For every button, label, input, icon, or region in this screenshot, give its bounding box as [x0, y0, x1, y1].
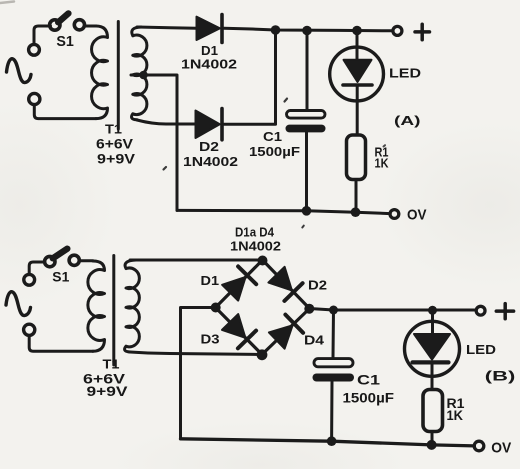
svg-text:LED: LED	[466, 342, 496, 357]
output terminal 0V (B)	[474, 441, 484, 451]
switch S1 (circuit B)	[45, 249, 80, 267]
AC source squiggle (A)	[7, 59, 32, 83]
svg-text:D4: D4	[304, 333, 325, 348]
AC input terminal upper (A)	[29, 44, 40, 55]
wire: secondary top to diode D1 (A)	[137, 27, 197, 28]
wire: LED cathode to R1 (B)	[431, 362, 434, 389]
LED (A)	[330, 47, 384, 101]
diode D2 (bridge, pointing to right node)	[268, 267, 302, 301]
wire: D2 cathode to D1 output junction (A)	[224, 123, 276, 126]
bridge arm top-node to right-node	[263, 260, 310, 309]
svg-text:(A): (A)	[394, 113, 421, 128]
label + (B)	[496, 304, 513, 319]
svg-text:D2: D2	[199, 139, 219, 154]
diode D2 (A)	[196, 109, 223, 140]
transformer T1 core (A)	[117, 22, 120, 130]
wire: secondary top to bridge top node (B)	[130, 259, 263, 262]
transformer T1 secondary winding (B)	[125, 260, 140, 352]
capacitor C1 (A)	[286, 111, 326, 133]
transformer center tap junction (A)	[139, 71, 148, 80]
svg-text:D3: D3	[201, 332, 220, 347]
stray ink speck right margin (A)	[384, 145, 386, 146]
LED (B)	[405, 321, 460, 376]
junction node C1 bottom (B)	[327, 436, 337, 446]
faint smudge top-left corner	[0, 2, 14, 4]
resistor R1 (B)	[423, 390, 443, 432]
0V rail (B)	[181, 439, 475, 446]
svg-text:T1: T1	[103, 357, 120, 372]
stray ink speck above bridge label	[302, 226, 304, 228]
svg-text:D1: D1	[201, 273, 220, 288]
svg-text:9+9V: 9+9V	[97, 152, 135, 167]
junction node bridge top	[258, 256, 268, 266]
svg-text:C1: C1	[263, 129, 282, 144]
wire: LED cathode to R1 (A)	[356, 85, 359, 135]
wire: R1 bottom to 0V rail (B)	[431, 432, 434, 445]
junction node C1 bottom (A)	[302, 206, 312, 216]
wire: C1 branch top (B)	[332, 310, 336, 357]
junction node D1 output (A)	[271, 25, 281, 35]
diode D4 (bridge, pointing to right node)	[269, 315, 303, 349]
svg-text:1N4002: 1N4002	[230, 239, 281, 254]
wire: bridge right node to + terminal (B)	[310, 309, 476, 311]
bridge arm bottom-node to right-node	[262, 309, 310, 355]
svg-text:1K: 1K	[447, 408, 464, 423]
diode D3 (bridge, pointing to bottom node)	[222, 314, 256, 348]
svg-text:1N4002: 1N4002	[183, 154, 238, 169]
AC input terminal upper (B)	[24, 274, 35, 285]
junction node R1 bottom (B)	[427, 440, 437, 450]
transformer T1 primary winding (A)	[92, 26, 108, 119]
resistor R1 (A)	[347, 135, 366, 180]
switch S1 (circuit A)	[50, 13, 85, 30]
svg-text:1K: 1K	[375, 155, 390, 170]
label + (A)	[415, 24, 430, 40]
capacitor C1 (B)	[313, 359, 355, 382]
stray ink speck near T1 (A)	[164, 167, 167, 170]
svg-text:S1: S1	[56, 34, 74, 50]
wire: center tap to 0V rail (A)	[131, 75, 177, 210]
AC input terminal lower (A)	[29, 93, 40, 104]
output terminal + (B)	[476, 306, 485, 315]
svg-text:1N4002: 1N4002	[181, 57, 237, 72]
svg-text:(B): (B)	[485, 369, 516, 384]
junction node LED top (A)	[352, 26, 362, 36]
junction node C1 top (A)	[302, 26, 312, 36]
wire: C1 branch top (A)	[306, 31, 309, 110]
wire: secondary bottom to diode D2 (A)	[137, 120, 195, 124]
svg-text:LED: LED	[389, 66, 421, 81]
svg-text:OV: OV	[407, 207, 427, 224]
wire: C1 bottom to 0V rail (B)	[330, 382, 333, 442]
wire: S1 right contact to primary winding (B)	[80, 259, 93, 262]
wire: R1 bottom to 0V rail (A)	[355, 180, 358, 213]
wire: upper AC terminal to S1 left contact (B)	[29, 262, 45, 274]
wire: bridge left node to 0V rail (B)	[181, 308, 216, 439]
0V rail (A)	[177, 210, 390, 213]
svg-text:OV: OV	[491, 440, 511, 457]
wire: secondary bottom to bridge bottom node (B)	[130, 352, 262, 355]
svg-text:1500µF: 1500µF	[343, 391, 395, 406]
junction node LED top (B)	[428, 306, 437, 315]
diode D1 (bridge, pointing to top node)	[222, 266, 256, 300]
transformer T1 secondary winding (A)	[131, 27, 146, 120]
svg-text:9+9V: 9+9V	[87, 384, 128, 399]
svg-text:D1a D4: D1a D4	[235, 225, 275, 240]
svg-text:6+6V: 6+6V	[96, 137, 133, 152]
wire: D1 cathode to + rail (A)	[224, 28, 393, 31]
output terminal + (A)	[393, 26, 402, 35]
svg-text:D2: D2	[308, 278, 327, 293]
wire: primary bottom to lower AC terminal (B)	[29, 336, 93, 351]
wire: LED branch top (B)	[431, 310, 434, 334]
bridge arm left-node to top-node	[216, 260, 263, 308]
junction node C1 top (B)	[329, 306, 338, 315]
junction node R1 bottom (A)	[351, 207, 361, 217]
svg-text:T1: T1	[105, 122, 122, 137]
wire: D1 output junction down to D2 cathode wire (A)	[274, 30, 277, 124]
svg-text:1500µF: 1500µF	[249, 144, 300, 159]
AC input terminal lower (B)	[24, 324, 35, 335]
wire: C1 bottom to 0V rail (A)	[305, 133, 308, 211]
output terminal 0V (A)	[390, 210, 399, 219]
wire: primary bottom to lower AC terminal (A)	[34, 105, 96, 119]
junction node bridge bottom	[257, 349, 268, 360]
svg-text:S1: S1	[52, 269, 69, 285]
transformer T1 primary winding (B)	[88, 261, 105, 351]
wire: LED branch top (A)	[356, 31, 359, 61]
junction node bridge left	[211, 303, 221, 313]
bridge arm left-node to bottom-node	[216, 308, 263, 355]
stray ink speck near C1 (A)	[285, 99, 288, 102]
svg-text:C1: C1	[357, 373, 381, 388]
junction node bridge right	[304, 304, 314, 314]
wire: upper AC terminal to S1 left contact (A)	[34, 26, 51, 44]
transformer T1 core (B)	[112, 256, 115, 366]
AC source squiggle (B)	[6, 292, 31, 316]
diode D1 (A)	[197, 15, 223, 43]
wire: S1 right contact to primary winding (A)	[86, 25, 97, 28]
